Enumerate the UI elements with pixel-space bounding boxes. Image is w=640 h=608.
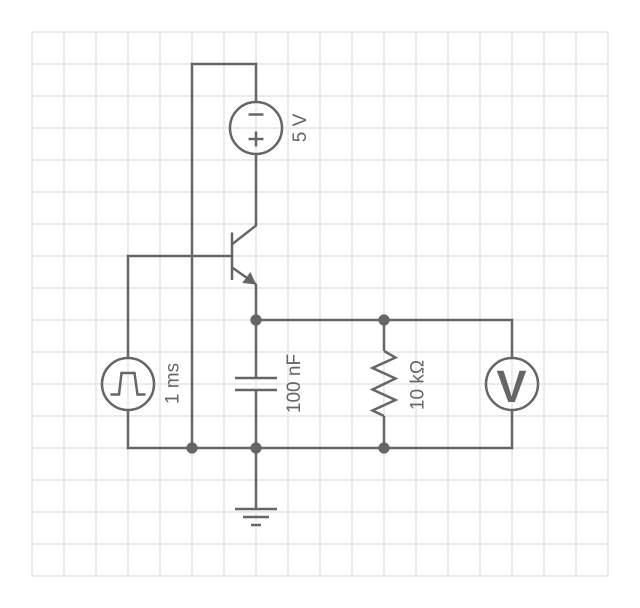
svg-text:100 nF: 100 nF [284, 354, 305, 413]
pulse source [102, 358, 154, 410]
node dot left bottom [186, 442, 197, 453]
resistor R1 [373, 351, 396, 416]
node dot ground [250, 442, 261, 453]
transistor emitter arrow [242, 272, 256, 285]
voltage source V1 [230, 102, 282, 154]
wire node horizontal + voltmeter top lead [256, 320, 512, 358]
ground [235, 448, 277, 525]
wire base + pulse top lead [128, 256, 232, 358]
wire resistor bottom lead [383, 416, 386, 448]
capacitor C1 [235, 378, 277, 390]
wire resistor top lead [383, 320, 386, 351]
wire emitter to node [255, 284, 258, 320]
node dot resistor top [378, 314, 389, 325]
svg-text:V: V [496, 361, 526, 412]
voltmeter [486, 358, 538, 410]
transistor Q1 [232, 226, 256, 285]
svg-text:5 V: 5 V [290, 113, 311, 142]
wire capacitor top lead [255, 320, 258, 377]
wire left vertical + top horizontal + V1 top lead [192, 64, 256, 448]
svg-text:10 kΩ: 10 kΩ [408, 360, 429, 410]
wire pulse bottom lead [128, 410, 192, 448]
node dot emitter [250, 314, 261, 325]
wire bottom horizontal + voltmeter bottom lead [192, 410, 512, 448]
svg-text:1 ms: 1 ms [163, 363, 184, 404]
wire V1 bottom to collector [255, 154, 258, 226]
wire capacitor bottom lead [255, 391, 258, 448]
node dot resistor bottom [378, 442, 389, 453]
